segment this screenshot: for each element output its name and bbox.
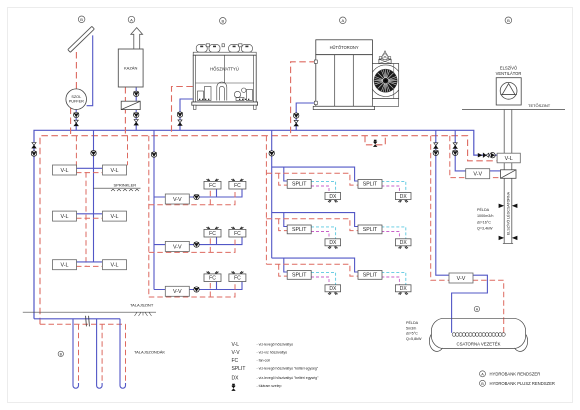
svg-text:- túláram szelep: - túláram szelep bbox=[257, 384, 282, 388]
wire blue stub inside pipe bbox=[451, 319, 453, 333]
svg-text:HYDROBANK PLUSZ RENDSZER: HYDROBANK PLUSZ RENDSZER bbox=[490, 381, 555, 386]
wire right pair-A blue trunk to bottom V-V bbox=[436, 130, 450, 275]
wire kazan blue drop bbox=[135, 87, 137, 130]
wire SPLIT row2 blue branch bbox=[272, 213, 359, 227]
valve V-hp bbox=[178, 120, 182, 126]
wire SPLIT row1 blue branch bbox=[272, 167, 359, 181]
wire V-V row1 blue branch bbox=[154, 189, 242, 197]
wire SPLIT row1 red branch bbox=[266, 173, 358, 185]
solar buffer tank SZOL PUFFER bbox=[66, 89, 87, 110]
exhaust fan ELSZIVO VENTILATOR bbox=[496, 78, 521, 105]
svg-text:B: B bbox=[507, 18, 510, 23]
node A tower (top) bbox=[340, 17, 347, 24]
wire DX row1b refrigerant lines bbox=[381, 181, 406, 192]
svg-text:SPLIT: SPLIT bbox=[232, 366, 246, 372]
SPLIT unit 1a bbox=[287, 180, 311, 189]
svg-text:KAZÁN: KAZÁN bbox=[124, 66, 137, 71]
wire DX row2b refrigerant lines bbox=[381, 227, 406, 239]
node B exhaust fan (top) bbox=[505, 17, 512, 24]
svg-text:- víz-levegő hőszivattyú: - víz-levegő hőszivattyú bbox=[257, 343, 294, 347]
sprinkler branch wire bbox=[94, 187, 141, 189]
svg-text:HYDROBANK RENDSZER: HYDROBANK RENDSZER bbox=[490, 371, 541, 376]
valve V-B bbox=[453, 143, 457, 149]
svg-text:- víz-levegő hőszivattyú "belt: - víz-levegő hőszivattyú "beltéri egység… bbox=[257, 376, 320, 380]
wire V-L column red trunk upper bbox=[75, 136, 77, 172]
duct airflow arrows upper bbox=[499, 204, 518, 208]
wire bottom V-V red return to sewer coil bbox=[473, 280, 504, 333]
pump P-kazan2 bbox=[134, 112, 139, 117]
svg-text:A: A bbox=[341, 18, 344, 23]
tower fan wheel bbox=[374, 69, 397, 92]
pump P-VL-roof bbox=[490, 153, 495, 158]
wire DX row1a refrigerant lines bbox=[311, 181, 336, 192]
svg-text:1000m3/h: 1000m3/h bbox=[477, 214, 493, 218]
pump P-VV3 bbox=[194, 287, 199, 292]
svg-text:B: B bbox=[80, 17, 83, 22]
wire kazan red drop bbox=[124, 87, 126, 136]
duct airflow arrows lower bbox=[499, 236, 518, 240]
wire SPLIT row2 red branch bbox=[266, 219, 358, 231]
legend overflow valve symbol bbox=[231, 384, 235, 391]
wire red stub inside pipe bbox=[503, 319, 505, 333]
wire V-L column blue trunk bbox=[93, 130, 95, 262]
check valve arrow at V-L bbox=[478, 153, 483, 157]
borehole loop 2 bbox=[97, 319, 103, 388]
pump P-hp bbox=[177, 112, 182, 117]
wire heatpump red connection bbox=[172, 87, 193, 136]
svg-text:VENTILÁTOR: VENTILÁTOR bbox=[496, 71, 522, 76]
SPLIT unit 2a bbox=[287, 225, 311, 234]
pump P-VV1 bbox=[194, 194, 199, 199]
legend abbreviations bbox=[232, 342, 246, 381]
V-L unit 2b bbox=[103, 211, 127, 221]
V-L unit rooftop duct bbox=[497, 153, 520, 163]
wire V-L row2 blue link bbox=[76, 213, 102, 215]
wire right pair-A red trunk to bottom V-V bbox=[431, 136, 450, 281]
svg-text:SZOL: SZOL bbox=[71, 95, 81, 99]
heat exchanger HX-kazan bbox=[121, 101, 140, 109]
svg-text:Δt=5°C: Δt=5°C bbox=[406, 332, 418, 336]
pipe coil bbox=[452, 333, 505, 337]
wire mid V-V blue to duct coil bbox=[489, 170, 501, 172]
V-L unit 3b bbox=[103, 260, 127, 270]
svg-text:HŐSZIVATTYÚ: HŐSZIVATTYÚ bbox=[210, 67, 239, 72]
wire SPLIT row3 blue branch bbox=[272, 258, 359, 272]
pipe break ticks bbox=[86, 316, 90, 327]
DX unit 2b bbox=[395, 239, 411, 249]
wire solar collector blue return bbox=[87, 35, 93, 105]
SPLIT unit 1b bbox=[358, 180, 382, 189]
PELDA note duct bbox=[477, 207, 493, 231]
SPLIT unit 3b bbox=[358, 271, 382, 280]
solar collector bbox=[68, 26, 95, 52]
svg-text:TALAJSZONDÁK: TALAJSZONDÁK bbox=[134, 349, 165, 354]
DX unit 1a bbox=[325, 193, 341, 203]
svg-text:V-L: V-L bbox=[232, 342, 240, 348]
svg-text:TETŐSZINT: TETŐSZINT bbox=[528, 103, 551, 108]
node B boreholes bbox=[58, 351, 63, 356]
exhaust duct walls bbox=[503, 110, 513, 244]
valve V-tower bbox=[294, 120, 298, 126]
wire V-L row3 red link bbox=[76, 265, 102, 267]
pump P-A bbox=[433, 150, 438, 155]
wire V-L row1 red link bbox=[76, 172, 102, 174]
svg-text:A: A bbox=[130, 17, 133, 22]
wire SPLIT row3 red branch bbox=[266, 264, 358, 276]
roof level line bbox=[462, 109, 565, 111]
wire V-V row2 red branch bbox=[149, 237, 235, 252]
ground level line TALAJSZINT bbox=[23, 311, 156, 313]
wire V-L row3 blue link bbox=[76, 261, 102, 263]
svg-text:Q=3,4kW: Q=3,4kW bbox=[477, 227, 493, 231]
svg-text:ELSZÍVÓ: ELSZÍVÓ bbox=[500, 66, 517, 71]
FC unit 3b bbox=[229, 271, 246, 281]
wire V-V row3 red branch bbox=[149, 282, 235, 298]
heat pump HOSZIVATTYU bbox=[192, 44, 258, 110]
svg-text:V-V: V-V bbox=[232, 350, 241, 356]
valve V-ground bbox=[32, 143, 36, 149]
svg-text:V-L: V-L bbox=[505, 156, 513, 162]
svg-text:ELSZÍVÓ LÉGCSATORNA: ELSZÍVÓ LÉGCSATORNA bbox=[506, 191, 511, 235]
V-V unit 3 bbox=[165, 286, 189, 296]
node B solar (top) bbox=[78, 16, 85, 23]
pump P-szol bbox=[74, 112, 79, 117]
svg-text:DX: DX bbox=[232, 375, 240, 381]
borehole loop 1 bbox=[73, 319, 79, 388]
wire V-L column red trunk lower bbox=[85, 172, 87, 266]
svg-text:- víz-levegő hőszivattyú "kült: - víz-levegő hőszivattyú "kültéri egység… bbox=[257, 367, 319, 371]
wire ground loop blue header bbox=[34, 318, 120, 320]
svg-text:- fan-coil: - fan-coil bbox=[257, 359, 271, 363]
pump P-SPLIT bbox=[269, 151, 274, 156]
FC unit 1b bbox=[229, 179, 246, 189]
wire V-V row1 red branch bbox=[149, 189, 235, 205]
SPLIT unit 2b bbox=[358, 225, 382, 234]
cooling tower HUTOTORONY bbox=[313, 40, 374, 110]
wire blue supply bus bbox=[34, 130, 497, 318]
tower fan housing bbox=[370, 51, 402, 106]
valve V-szol bbox=[74, 120, 78, 126]
pump P-B bbox=[453, 150, 458, 155]
wire solar collector red drop bbox=[75, 52, 77, 89]
sewer pipe CSATORNA VEZETEK bbox=[429, 318, 527, 351]
DX unit 3a bbox=[325, 285, 341, 295]
V-L unit 1a bbox=[53, 165, 77, 175]
V-V unit mid-right bbox=[466, 169, 490, 179]
duct heat exchanger bbox=[501, 170, 517, 179]
node A sewer bbox=[474, 306, 479, 311]
svg-text:FC: FC bbox=[232, 358, 239, 364]
wire right pair-B blue trunk to mid V-V bbox=[455, 130, 466, 171]
wire SPLIT column blue trunk bbox=[271, 130, 273, 258]
valve V-VL (horizontal bowtie) bbox=[483, 153, 489, 157]
svg-text:5m3/h: 5m3/h bbox=[406, 326, 416, 330]
pump P-VV2 bbox=[194, 242, 199, 247]
valve V-A bbox=[434, 143, 438, 149]
wire DX row2a refrigerant lines bbox=[311, 227, 336, 239]
wire red return bus bbox=[40, 136, 497, 325]
svg-text:PÉLDA: PÉLDA bbox=[406, 320, 419, 325]
svg-text:CSATORNA VEZETÉK: CSATORNA VEZETÉK bbox=[456, 342, 500, 347]
FC unit 2b bbox=[229, 227, 246, 237]
wire SPLIT column red trunk bbox=[265, 136, 267, 265]
svg-text:SPRINKLER: SPRINKLER bbox=[114, 183, 137, 188]
pump P-VV bbox=[151, 152, 156, 157]
V-V unit 1 bbox=[165, 194, 189, 204]
node B heat pump (top) bbox=[220, 18, 227, 25]
wire V-V row2 blue branch bbox=[154, 237, 242, 245]
valve V-kazan bbox=[134, 120, 138, 126]
pump P-ground bbox=[31, 151, 36, 156]
FC unit 3a bbox=[204, 271, 221, 281]
SPLIT unit 3a bbox=[287, 271, 311, 280]
svg-text:TALAJSZINT: TALAJSZINT bbox=[130, 303, 154, 308]
heat pump dots row bbox=[199, 99, 249, 100]
wire V-L row1 blue link bbox=[76, 167, 102, 169]
DX unit 1b bbox=[395, 193, 411, 203]
wire ground loop red header bbox=[40, 323, 126, 325]
svg-text:Δt=16°C: Δt=16°C bbox=[477, 220, 491, 224]
FC unit 2a bbox=[204, 227, 221, 237]
wire V-V column blue trunk bbox=[153, 130, 155, 289]
DX unit 2a bbox=[325, 239, 341, 249]
pump P-tower bbox=[294, 113, 299, 118]
svg-text:B: B bbox=[221, 19, 224, 24]
V-V unit 2 bbox=[165, 241, 189, 251]
wire right pair-B red trunk to duct coil bbox=[450, 136, 501, 178]
svg-text:Q=5,8kW: Q=5,8kW bbox=[406, 337, 422, 341]
boiler KAZAN bbox=[118, 28, 143, 87]
wire tower blue connection bbox=[296, 103, 316, 130]
wire tower red connection bbox=[291, 62, 316, 136]
svg-text:B: B bbox=[481, 382, 484, 386]
wire puffer red drop to bus bbox=[70, 108, 72, 136]
overflow-valve bypass wire bbox=[365, 136, 385, 145]
svg-text:HŰTŐTORONY: HŰTŐTORONY bbox=[330, 45, 359, 50]
V-V unit bottom-right bbox=[449, 273, 473, 283]
wire V-V column red trunk bbox=[148, 136, 150, 297]
pump P-kazan1 bbox=[134, 91, 139, 96]
svg-text:- víz-víz hőszivattyú: - víz-víz hőszivattyú bbox=[257, 351, 288, 355]
overflow valve TS1 bbox=[373, 140, 377, 147]
legend B hydrobank plusz bbox=[480, 380, 555, 386]
wire puffer blue drop to bus bbox=[75, 109, 77, 130]
ground hatch bbox=[135, 312, 152, 316]
PELDA note sewer bbox=[406, 320, 422, 341]
wire V-V row3 blue branch bbox=[154, 282, 242, 290]
wire heatpump blue connection bbox=[180, 99, 193, 130]
wire bottom V-V blue loop to sewer coil bbox=[452, 275, 488, 333]
V-L unit 2a bbox=[53, 211, 77, 221]
wire V-L row2 red link bbox=[76, 217, 102, 219]
svg-text:PÉLDA: PÉLDA bbox=[477, 207, 490, 212]
FC unit 1a bbox=[204, 179, 221, 189]
pump P-VL bbox=[91, 151, 96, 156]
wire V-L row1 red stub right bbox=[127, 136, 129, 166]
DX unit 3b bbox=[395, 285, 411, 295]
svg-text:A: A bbox=[481, 372, 484, 376]
V-L unit 1b bbox=[103, 165, 127, 175]
wire DX row3b refrigerant lines bbox=[381, 272, 406, 284]
borehole loop 3 bbox=[120, 319, 126, 388]
V-L unit 3a bbox=[53, 260, 77, 270]
svg-text:PUFFER: PUFFER bbox=[69, 100, 84, 104]
sprinkler heads bbox=[111, 189, 139, 191]
node A boiler (top) bbox=[128, 16, 135, 23]
wire DX row3a refrigerant lines bbox=[311, 272, 336, 284]
legend A hydrobank bbox=[480, 371, 541, 377]
